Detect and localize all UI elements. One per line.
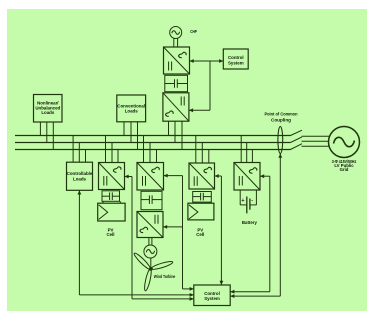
wire conventional tap a <box>123 122 125 136</box>
arrowhead into controllable loads <box>78 190 82 194</box>
arrowhead into wind converter U5 <box>163 225 167 229</box>
wire controllable tap c <box>85 149 87 162</box>
converter wind machine-side U5 <box>137 212 163 238</box>
bus L3 <box>15 149 291 151</box>
wire CHP shaft <box>174 39 178 48</box>
breaker slash phase 1 <box>291 130 303 135</box>
PCC ellipse <box>278 127 283 154</box>
wire PV2 tap b <box>201 143 203 164</box>
CHP generator G2 <box>170 27 182 39</box>
converter PV1 DC/AC U3 <box>99 163 125 190</box>
svg-text:System: System <box>228 60 244 65</box>
arrowhead into CHP converter U1 <box>190 59 194 63</box>
wire PV1 cap stubs <box>103 201 120 203</box>
wire PV1 control <box>125 177 194 299</box>
arrowhead PV1 into control box <box>190 297 194 301</box>
Controllable loads label <box>67 171 93 181</box>
wire grid phase 1 <box>302 135 330 137</box>
wire PCC control <box>230 154 280 297</box>
battery polarity marks <box>241 198 253 204</box>
bus L2 <box>15 142 291 144</box>
wire battery tap b <box>246 143 248 163</box>
bottom control system label <box>204 291 220 301</box>
svg-text:Battery: Battery <box>242 220 258 225</box>
wire controllable tap b <box>78 143 80 163</box>
converter CHP AC/DC U1 <box>164 47 190 74</box>
wire nonlinear tap a <box>39 122 41 136</box>
control box top Control System <box>223 49 248 69</box>
PV cell 2 <box>188 203 214 220</box>
wire PV2 cap stubs <box>194 202 211 203</box>
svg-text:Cell: Cell <box>196 232 204 237</box>
arrowhead wind into control box <box>190 287 194 291</box>
breaker slash phase 2 <box>291 137 303 143</box>
arrowhead into PV1 converter <box>125 175 129 179</box>
arrowhead into top control box <box>219 59 223 63</box>
battery B1 <box>240 190 256 213</box>
PCC label <box>265 111 298 122</box>
wire CHP control horizontal <box>190 60 224 62</box>
wire grid phase 2 <box>302 140 329 142</box>
wind turbine hub <box>150 268 153 271</box>
CHP label <box>190 29 197 34</box>
wire battery tap c <box>251 149 253 163</box>
wind turbine label <box>154 274 176 279</box>
bus L1 <box>15 135 291 137</box>
load box Nonlinear/Unbalanced Loads <box>34 95 63 123</box>
arrowhead into CHP converter U2 <box>189 108 193 112</box>
wire controllable loads control <box>79 190 193 295</box>
utility grid source G1 <box>329 127 360 158</box>
converter battery DC/AC U7 <box>234 163 260 191</box>
capacitor CHP DC link <box>165 75 188 91</box>
arrowhead PV2 into control box top <box>220 281 224 285</box>
svg-text:Loads: Loads <box>125 109 138 114</box>
arrowhead PCC into control box <box>230 294 234 298</box>
wire PV1 tap a <box>105 136 107 163</box>
svg-text:Grid: Grid <box>340 167 349 172</box>
Nonlinear loads label <box>35 101 60 116</box>
wire wind tap c <box>156 149 158 163</box>
wire wind tap a <box>143 136 145 163</box>
svg-text:Wind Turbine: Wind Turbine <box>154 274 176 279</box>
wire CHP tap a <box>168 121 170 135</box>
wire battery control <box>230 176 270 292</box>
wire CHP tap b <box>174 121 176 142</box>
breaker slash phase 3 <box>291 144 303 150</box>
wire CHP tap c <box>181 121 183 150</box>
svg-text:-: - <box>251 198 253 204</box>
svg-text:Loads: Loads <box>41 110 54 115</box>
arrowhead into PV2 converter <box>215 174 219 178</box>
wire wind tap b <box>149 143 151 163</box>
arrowhead into battery converter <box>260 174 264 178</box>
wire PV1 tap b <box>111 143 113 163</box>
wire conventional tap c <box>137 122 139 150</box>
PV cell 1 <box>98 203 125 221</box>
svg-text:System: System <box>204 296 220 301</box>
wind turbine rotor <box>133 252 174 292</box>
wire conventional tap b <box>130 122 132 143</box>
wire nonlinear tap c <box>52 122 54 150</box>
arrowhead into PCC <box>278 154 282 158</box>
wire wind generator shaft <box>149 238 152 246</box>
svg-text:Coupling: Coupling <box>271 118 291 123</box>
wire turbine stem <box>150 258 152 269</box>
capacitor PV2 DC link <box>193 192 212 203</box>
svg-text:Point of Common: Point of Common <box>265 111 298 116</box>
converter Wind grid-side U4 <box>137 163 164 191</box>
converter CHP DC/AC U2 <box>163 93 189 121</box>
arrowhead battery into control box <box>230 290 234 294</box>
control box bottom Control System <box>194 285 230 306</box>
svg-text:+: + <box>241 198 244 204</box>
battery label <box>242 220 258 225</box>
wind generator G3 <box>144 245 157 258</box>
wire PV1 tap c <box>117 149 119 163</box>
svg-text:CHP: CHP <box>190 29 197 34</box>
top control system label <box>228 55 244 65</box>
arrowhead into wind converter U4 <box>164 174 168 178</box>
svg-text:Loads: Loads <box>73 176 86 181</box>
arrowhead controllable into control box <box>190 293 194 297</box>
PV cell 2 label <box>196 228 204 237</box>
svg-text:Cell: Cell <box>106 232 114 237</box>
wire battery tap a <box>240 136 242 163</box>
wire CHP control vertical branch <box>189 61 210 110</box>
load box Controllable Loads <box>67 162 93 190</box>
wire nonlinear tap b <box>46 122 48 143</box>
wire grid phase 3 <box>302 145 330 147</box>
capacitor PV1 DC link <box>102 191 120 202</box>
wire PV2 control <box>215 176 222 285</box>
Conventional loads label <box>117 104 145 114</box>
wire PV2 tap a <box>195 136 197 163</box>
wire controllable tap a <box>72 136 74 163</box>
PV cell 1 label <box>106 228 114 237</box>
wire PV2 tap c <box>208 149 210 163</box>
grid label <box>332 159 357 172</box>
wire wind control <box>163 176 194 289</box>
capacitor wind DC link <box>141 191 162 209</box>
load box Conventional Loads <box>117 95 146 122</box>
converter PV2 DC/AC U6 <box>189 163 215 189</box>
